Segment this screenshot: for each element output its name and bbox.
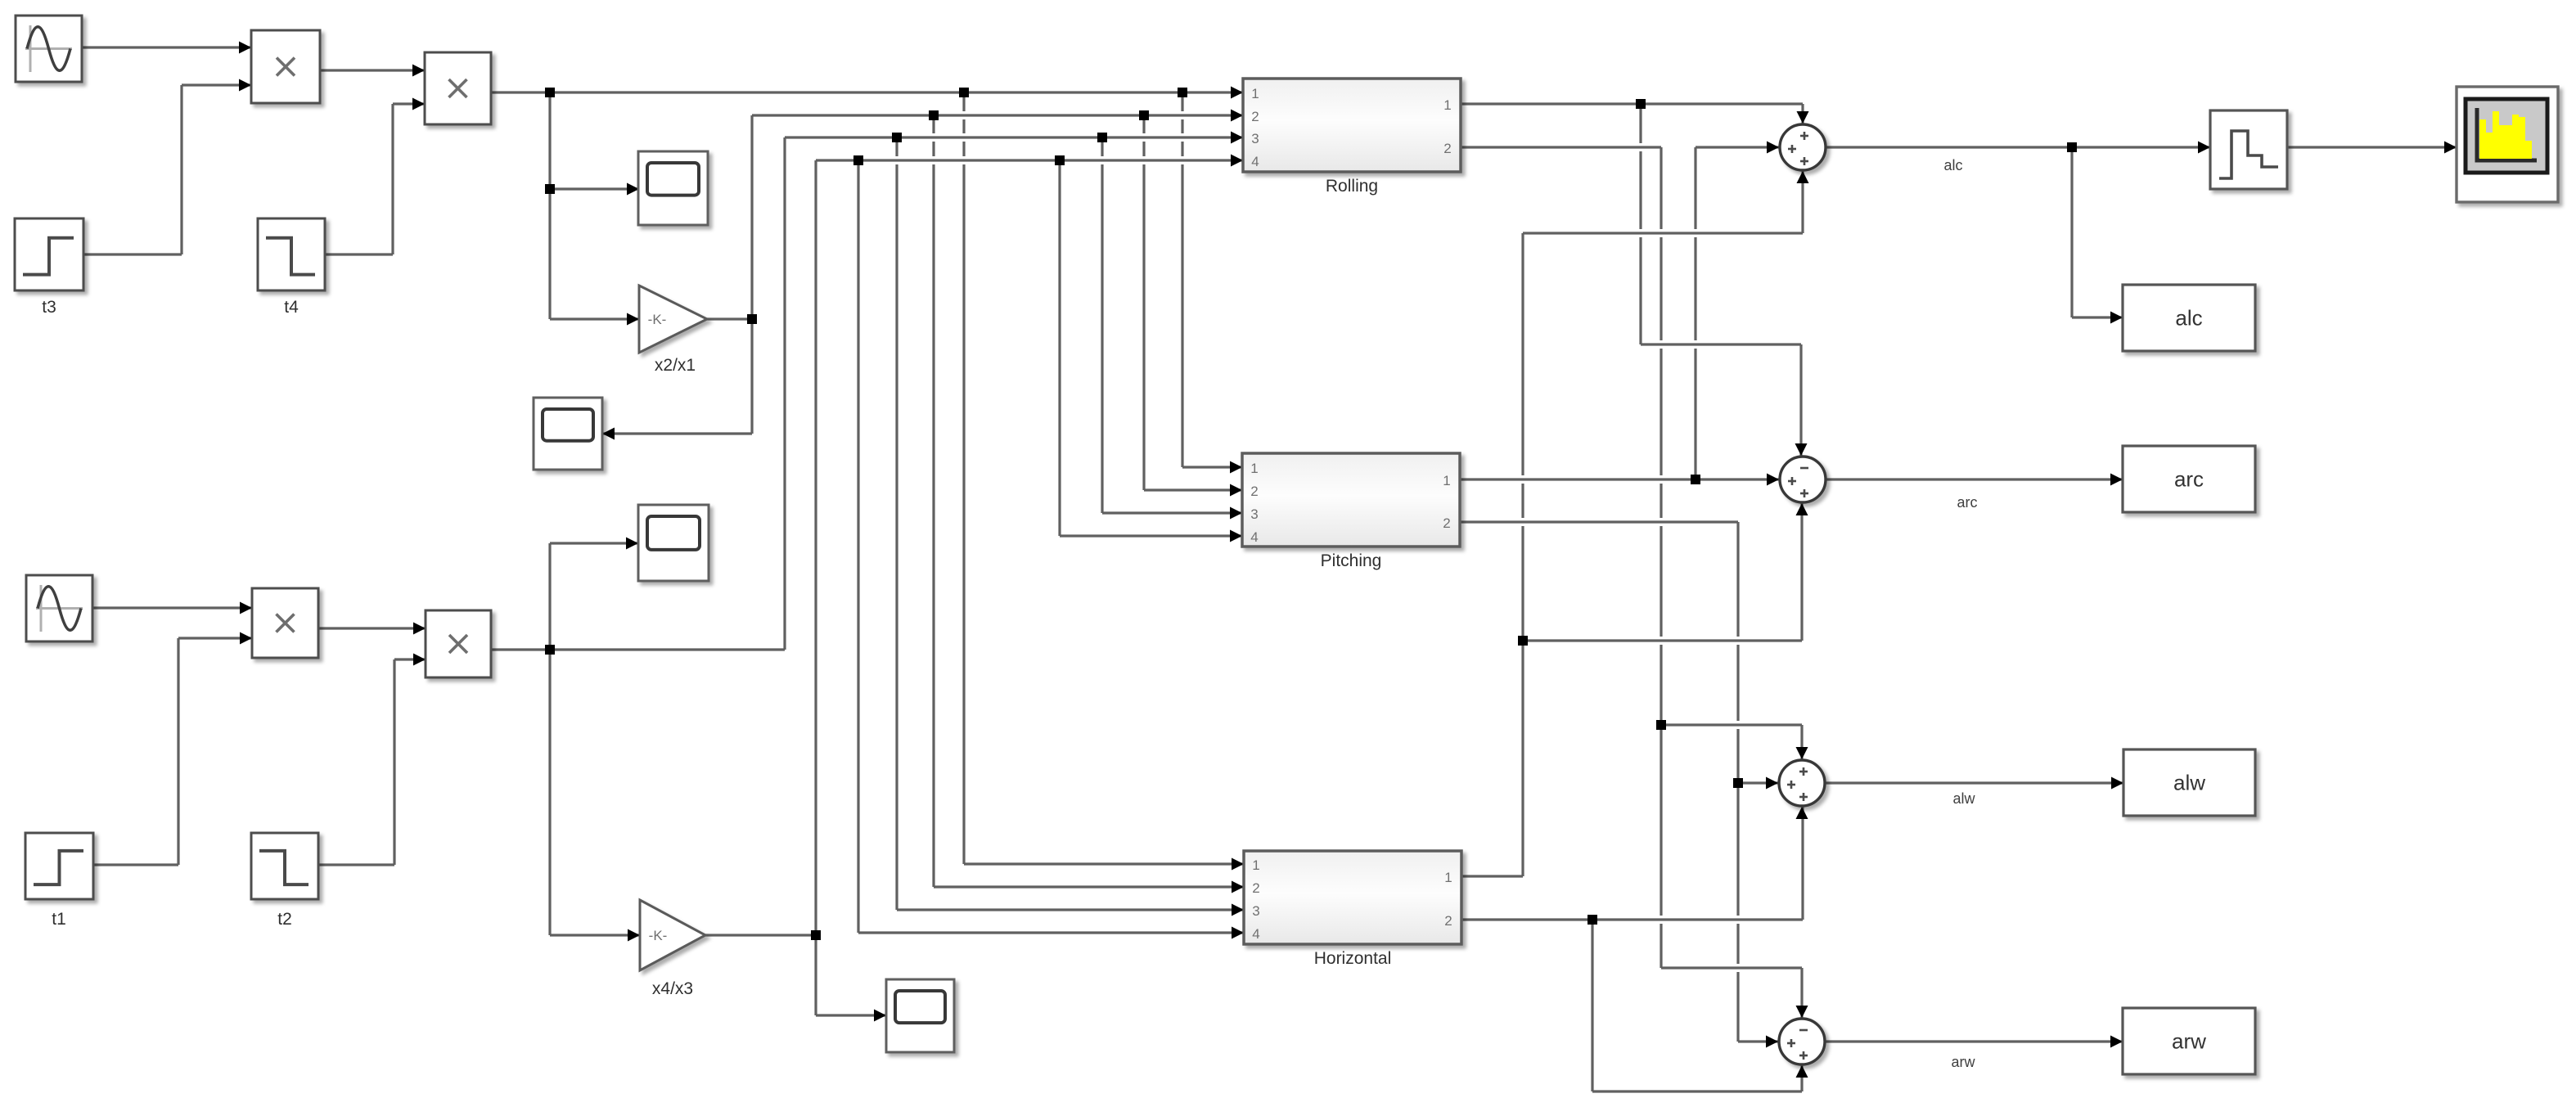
svg-text:2: 2 <box>1444 913 1452 929</box>
svg-text:3: 3 <box>1251 131 1259 146</box>
svg-text:arw: arw <box>2172 1029 2206 1054</box>
svg-text:x2/x1: x2/x1 <box>655 356 696 375</box>
svg-text:t3: t3 <box>42 298 56 317</box>
svg-text:1: 1 <box>1251 86 1259 101</box>
svg-text:2: 2 <box>1443 141 1451 156</box>
svg-text:arw: arw <box>1951 1054 1975 1070</box>
svg-text:2: 2 <box>1252 880 1259 896</box>
svg-text:Rolling: Rolling <box>1326 177 1378 196</box>
svg-text:2: 2 <box>1443 515 1450 531</box>
svg-text:arc: arc <box>1957 494 1977 511</box>
svg-text:Pitching: Pitching <box>1321 551 1382 570</box>
svg-text:4: 4 <box>1251 154 1259 169</box>
svg-text:Horizontal: Horizontal <box>1314 949 1392 968</box>
svg-text:alw: alw <box>2173 771 2205 795</box>
svg-text:t2: t2 <box>277 910 292 929</box>
svg-text:1: 1 <box>1443 473 1450 488</box>
svg-text:1: 1 <box>1444 870 1452 885</box>
svg-text:2: 2 <box>1251 109 1259 124</box>
svg-text:alc: alc <box>2175 306 2202 331</box>
svg-text:3: 3 <box>1252 903 1259 919</box>
svg-text:t1: t1 <box>52 910 66 929</box>
svg-text:arc: arc <box>2174 467 2204 492</box>
svg-text:4: 4 <box>1252 926 1259 942</box>
svg-text:3: 3 <box>1250 506 1258 522</box>
svg-text:x4/x3: x4/x3 <box>652 979 693 998</box>
svg-text:alc: alc <box>1943 157 1962 173</box>
svg-text:-K-: -K- <box>648 312 667 327</box>
svg-text:2: 2 <box>1250 484 1258 499</box>
svg-text:4: 4 <box>1250 529 1258 545</box>
svg-text:-K-: -K- <box>649 928 668 943</box>
svg-text:alw: alw <box>1952 790 1975 807</box>
svg-text:t4: t4 <box>284 298 299 317</box>
svg-text:1: 1 <box>1443 97 1451 113</box>
svg-text:1: 1 <box>1250 461 1258 476</box>
svg-text:1: 1 <box>1252 857 1259 873</box>
